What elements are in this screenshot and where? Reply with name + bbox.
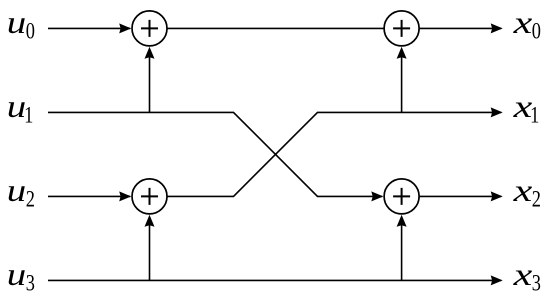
- svg-text:2: 2: [26, 186, 35, 213]
- svg-text:2: 2: [532, 186, 541, 213]
- svg-text:0: 0: [532, 18, 541, 45]
- svg-text:0: 0: [26, 18, 35, 45]
- svg-text:u: u: [7, 256, 26, 292]
- svg-text:3: 3: [26, 270, 35, 297]
- svg-text:x: x: [512, 174, 532, 209]
- svg-text:1: 1: [530, 102, 539, 129]
- svg-text:u: u: [7, 88, 26, 124]
- svg-text:u: u: [7, 172, 26, 208]
- svg-text:u: u: [7, 4, 26, 40]
- svg-text:x: x: [512, 258, 532, 293]
- svg-text:3: 3: [532, 270, 541, 297]
- svg-text:x: x: [512, 6, 532, 41]
- svg-text:1: 1: [24, 102, 33, 129]
